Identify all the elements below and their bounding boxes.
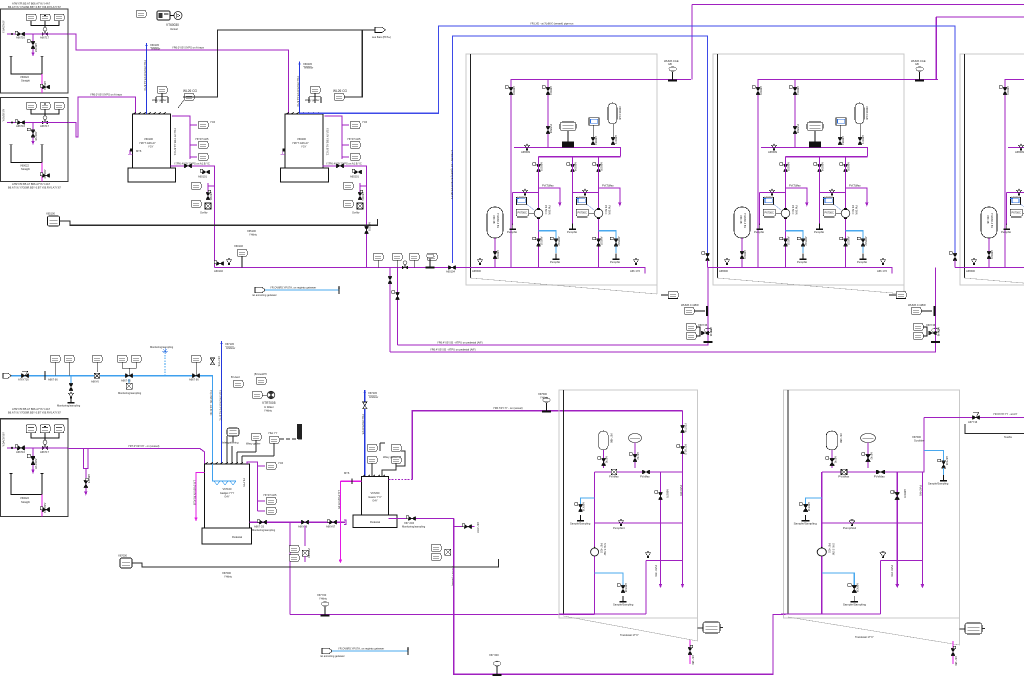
- V67200 overhead feed from transfer line: [389, 478, 413, 480]
- svg-text:B6.A7Y.6.Y7G06R.B5Y 6.B7 Y06.R: B6.A7Y.6.Y7G06R.B5Y 6.B7 Y06.RY6.A7Y.67: [8, 5, 61, 9]
- recycle line outer: [390, 341, 936, 352]
- svg-text:ret annwring getwwer: ret annwring getwwer: [320, 654, 345, 658]
- svg-text:Wavy gather: Wavy gather: [246, 441, 261, 445]
- svg-text:MY6: MY6: [344, 471, 350, 475]
- svg-text:Ovrflw: Ovrflw: [352, 211, 359, 215]
- bottom module 1 feed drop: [677, 411, 688, 472]
- svg-text:B6.A7Y.6.Y7G06R.B5Y 6.B7 Y06.R: B6.A7Y.6.Y7G06R.B5Y 6.B7 Y06.RY6.A7Y.67: [8, 411, 61, 415]
- flare arrow: [375, 27, 386, 32]
- flanged tee on waste bottom run: [493, 661, 502, 676]
- svg-text:Monitoring/sampling: Monitoring/sampling: [57, 404, 81, 408]
- bottom module 2 internals: [781, 431, 924, 614]
- svg-text:B6.A7Y.6.Y7G06R.B5Y 6.B7 Y06.R: B6.A7Y.6.Y7G06R.B5Y 6.B7 Y06.RY6.A7Y.67: [8, 185, 61, 189]
- svg-text:WL26 CG: WL26 CG: [183, 89, 198, 93]
- svg-text:B.Used: B.Used: [231, 375, 240, 379]
- svg-text:Y6Y07.G05: Y6Y07.G05: [195, 137, 209, 141]
- svg-text:Inlet gathering: Inlet gathering: [222, 441, 239, 445]
- svg-text:X67 600: X67 600: [489, 653, 499, 657]
- svg-text:Wavy gathering: Wavy gathering: [383, 455, 401, 459]
- svg-text:V60100: V60100: [144, 137, 154, 141]
- process module 1: [466, 54, 691, 294]
- svg-text:Ovrflw: Ovrflw: [200, 211, 207, 215]
- V60100 drain branch: [191, 183, 214, 215]
- svg-text:A7MY7R.B5.A7 B06.A7Y6.Y.4A7: A7MY7R.B5.A7 B06.A7Y6.Y.4A7: [12, 407, 51, 411]
- outlet branch small: [431, 522, 480, 586]
- process module 3: [960, 54, 1024, 294]
- svg-text:V60200: V60200: [297, 137, 307, 141]
- scrubber vessel V67100: [202, 462, 252, 544]
- svg-text:YR6.4Y/3Y.05 - ATPU on pedesta: YR6.4Y/3Y.05 - ATPU on pedestal (A/F): [437, 341, 483, 345]
- vessel V60100 side nozzle: [128, 150, 132, 154]
- V67200 pink feed line: [337, 471, 362, 563]
- svg-text:YMY7.G06.AY: YMY7.G06.AY: [139, 141, 156, 145]
- black test bracket top right: [965, 424, 1024, 434]
- svg-text:YT67Y6: YT67Y6: [684, 423, 688, 433]
- svg-text:Wavy gather: Wavy gather: [305, 98, 320, 102]
- svg-text:A60111: A60111: [209, 192, 213, 201]
- svg-text:YHdrty: YHdrty: [319, 597, 328, 601]
- svg-text:G4Y: G4Y: [372, 499, 377, 503]
- svg-text:X67245: X67245: [368, 391, 378, 395]
- scrubber vessel V67200: [353, 475, 397, 528]
- svg-text:YR6.4Y/3Y.05 - ATPU on pedesta: YR6.4Y/3Y.05 - ATPU on pedestal (A/F): [430, 348, 476, 352]
- long blue supply line 1: [300, 26, 956, 253]
- caustic unit box 3: [1, 419, 69, 517]
- svg-text:Pedestal: Pedestal: [370, 520, 381, 524]
- svg-text:Monitoring/sampling: Monitoring/sampling: [118, 391, 142, 395]
- bottom module 2 waste valve: [951, 641, 958, 666]
- pipe from box2 to V60100: [68, 97, 135, 137]
- svg-text:A60211: A60211: [361, 192, 365, 201]
- svg-text:Y.1R.0Y Y.B5.A1.B.YC1: Y.1R.0Y Y.B5.A1.B.YC1: [173, 128, 177, 156]
- recycle riser module2 with instrument taps: [661, 268, 713, 342]
- V60200 bottom outlet: [323, 166, 367, 268]
- waste transfer drop and bottom run: [454, 519, 786, 675]
- svg-text:see flare (PFS+): see flare (PFS+): [372, 35, 391, 39]
- svg-text:Y.7R6.4Y/3Y.0YPS on A1.B.YC: Y.7R6.4Y/3Y.0YPS on A1.B.YC: [174, 161, 210, 165]
- X60146 utility connection: [227, 244, 247, 268]
- svg-text:L.YR.LYE - 1.6 7(x66Y) B.YR.0Y: L.YR.LYE - 1.6 7(x66Y) B.YR.0Y.P5 AB.Y1: [450, 150, 454, 200]
- svg-text:Monitoring/sampling: Monitoring/sampling: [402, 525, 426, 529]
- svg-text:A667 66: A667 66: [189, 378, 199, 382]
- svg-text:Y6Y07.G05: Y6Y07.G05: [263, 493, 277, 497]
- svg-text:YR6.7/3Y.7Y - on (vessel): YR6.7/3Y.7Y - on (vessel): [493, 406, 523, 410]
- svg-text:A60203: A60203: [368, 222, 372, 232]
- svg-text:YHdrty: YHdrty: [264, 408, 273, 412]
- svg-text:Monitoring/sampling: Monitoring/sampling: [252, 528, 276, 532]
- V60200 drain branch: [343, 183, 367, 215]
- blue dosing spur bottom: [320, 647, 409, 658]
- VT60030 instrument group: [136, 11, 182, 31]
- svg-text:WHMX.C.GBW: WHMX.C.GBW: [908, 303, 926, 307]
- svg-text:X60146: X60146: [234, 244, 244, 248]
- svg-text:X67145: X67145: [225, 342, 235, 346]
- svg-text:X60Y46: X60Y46: [926, 323, 936, 327]
- svg-text:Translwait 17YY: Translwait 17YY: [620, 633, 639, 637]
- VTR7005 instrument cluster: [231, 372, 276, 412]
- svg-text:Monitoring/sampling: Monitoring/sampling: [150, 345, 174, 349]
- inhibitor line X60245: [299, 62, 301, 114]
- V67100 left recirculation line: [196, 473, 205, 519]
- svg-text:X67Y00: X67Y00: [317, 593, 327, 597]
- riser from transfer header to recycle bracket: [390, 268, 398, 353]
- caustic unit box 1: [1, 9, 69, 93]
- drain spur below outlet: [289, 522, 311, 562]
- svg-text:Y.1R.0Y/3Y.0Y.P5: Y.1R.0Y/3Y.0Y.P5: [361, 414, 365, 435]
- V60100 bottom outlet: [170, 166, 214, 268]
- svg-text:Y.1R.0Y/3Y.0Y.P5 A1.B.YC: Y.1R.0Y/3Y.0Y.P5 A1.B.YC: [143, 60, 147, 91]
- svg-text:Venturi: Venturi: [170, 27, 178, 31]
- recycle flange 2: [931, 328, 940, 343]
- V67100 top instrument manifold: [222, 424, 302, 464]
- top magenta supply to module 2: [922, 17, 1024, 80]
- svg-text:Y6.YY5: Y6.YY5: [242, 478, 246, 487]
- svg-text:Y6Y07.G05: Y6Y07.G05: [347, 137, 361, 141]
- svg-text:MY6: MY6: [136, 149, 142, 153]
- recycle line inner: [398, 341, 709, 345]
- module 3 bottom header extension: [955, 267, 960, 269]
- inhibitor line X67245: [361, 390, 378, 477]
- svg-text:V67200: V67200: [371, 491, 381, 495]
- bottom module 1 right side box: [698, 622, 724, 633]
- svg-text:X67 186: X67 186: [954, 656, 958, 666]
- svg-text:X60245: X60245: [303, 62, 313, 66]
- svg-text:L.R.0Y/3Y.0Y.P5: L.R.0Y/3Y.0Y.P5: [337, 490, 341, 509]
- transfer run to module 1: [290, 614, 595, 616]
- svg-text:A67Y26: A67Y26: [945, 456, 949, 466]
- feed instrument boxes above V60200: [310, 87, 320, 94]
- svg-text:YC6: YC6: [210, 120, 216, 124]
- V60200 right instrument taps: [325, 116, 368, 160]
- svg-text:A60102: A60102: [214, 269, 224, 273]
- box3 outlet pipe to V67100: [68, 449, 205, 465]
- svg-text:Gadget YYY: Gadget YYY: [220, 491, 235, 495]
- svg-text:YMY7.G06.AY: YMY7.G06.AY: [292, 141, 309, 145]
- black process line X67000: [118, 554, 499, 579]
- svg-text:A60Y46: A60Y46: [709, 327, 713, 337]
- svg-text:Wavy gather: Wavy gather: [152, 98, 167, 102]
- transfer header instrument cluster: [373, 253, 456, 273]
- svg-text:ret annwring getwwer: ret annwring getwwer: [252, 293, 277, 297]
- svg-text:X60Y46: X60Y46: [698, 323, 708, 327]
- feed instrument boxes above V60100: [157, 87, 167, 94]
- svg-text:A60Y46: A60Y46: [937, 327, 941, 337]
- flanged tee X67Y00 on transfer run: [321, 601, 330, 616]
- loop seal branch on box3 outlet: [84, 449, 89, 493]
- svg-text:A7MY7R.B5.A7 B06.A7Y6.Y.4A7: A7MY7R.B5.A7 B06.A7Y6.Y.4A7: [12, 2, 51, 6]
- flare branch to V60200 instruments: [344, 30, 362, 97]
- svg-text:YGY: YGY: [301, 145, 307, 149]
- X67500 flanged tee on transfer line: [542, 398, 551, 413]
- V67200 top instrument boxes: [367, 443, 405, 477]
- svg-text:YGY: YGY: [148, 145, 154, 149]
- svg-text:Y6el YY: Y6el YY: [268, 431, 278, 435]
- spray header inside: [213, 464, 237, 481]
- svg-text:C67 YY6: C67 YY6: [217, 356, 221, 367]
- svg-text:YHdrty: YHdrty: [540, 396, 549, 400]
- svg-text:Inhibitor: Inhibitor: [304, 66, 313, 70]
- svg-text:A667 66: A667 66: [121, 378, 131, 382]
- svg-text:(B.Used/Th: (B.Used/Th: [254, 372, 268, 376]
- svg-text:Sample/Sampling: Sample/Sampling: [928, 482, 949, 486]
- bottom module 1 internals: [559, 431, 684, 614]
- svg-text:YR.OV6R5.YP.07A, on regietry g: YR.OV6R5.YP.07A, on regietry getwwer: [270, 286, 316, 290]
- recycle riser to transfer line: [289, 522, 291, 614]
- svg-text:A66Y66: A66Y66: [298, 525, 308, 529]
- svg-text:YR.LYE - at 7(x66Y) (vessel) p: YR.LYE - at 7(x66Y) (vessel) pipe-run: [530, 22, 574, 26]
- svg-text:YR6.0Y/3Y.0YPS on A trays: YR6.0Y/3Y.0YPS on A trays: [90, 92, 123, 96]
- recycle riser module3 with instrument taps: [889, 268, 941, 342]
- svg-text:X67000: X67000: [118, 554, 128, 558]
- svg-text:X67500: X67500: [538, 392, 548, 396]
- svg-text:YC6: YC6: [362, 120, 368, 124]
- pipe from box1 to V60200: [68, 34, 288, 114]
- svg-text:A66Y67: A66Y67: [326, 525, 336, 529]
- svg-text:Translwait 17YY: Translwait 17YY: [855, 635, 874, 639]
- top magenta supply to module 1: [692, 5, 1024, 80]
- V67100 right instrument taps: [242, 461, 284, 514]
- bottom module 2 right side box: [960, 623, 986, 634]
- hanging drain on dosing line: [70, 376, 72, 385]
- svg-text:X60145: X60145: [150, 43, 160, 47]
- svg-text:X67000: X67000: [222, 571, 232, 575]
- bottom module 2 feed from right: [912, 412, 1024, 472]
- svg-text:Y.7R6.4Y/3Y.0YPS on A1.B.YC: Y.7R6.4Y/3Y.0YPS on A1.B.YC: [326, 161, 362, 165]
- inhibitor line X60145: [146, 43, 148, 114]
- recycle flange 1: [704, 328, 713, 343]
- svg-text:WL26 CG: WL26 CG: [333, 89, 348, 93]
- svg-text:A7MY7R.B5.A7 B06.A7Y6.Y.4A7: A7MY7R.B5.A7 B06.A7Y6.Y.4A7: [12, 182, 51, 186]
- svg-text:Y.1R.0Y/3Y.0Y.P5 A1.B.YC: Y.1R.0Y/3Y.0Y.P5 A1.B.YC: [218, 390, 222, 421]
- V67200 bottom outlet: [389, 516, 454, 529]
- vessel V60200 side nozzle: [281, 150, 285, 154]
- svg-text:X65100: X65100: [247, 229, 257, 233]
- svg-text:Y.1R.0Y Y.B5.A1.B.YC1: Y.1R.0Y Y.B5.A1.B.YC1: [326, 128, 330, 156]
- svg-text:Pedestal: Pedestal: [232, 535, 243, 539]
- inhibitor line X67145: [209, 341, 235, 464]
- svg-text:Y.1R.0Y/3Y.0Y.P5 A1.B.YC: Y.1R.0Y/3Y.0Y.P5 A1.B.YC: [296, 76, 300, 107]
- svg-text:Scrubber: Scrubber: [914, 439, 925, 443]
- bottom module 2 frame: [784, 390, 960, 645]
- svg-text:VTR7005: VTR7005: [262, 401, 276, 405]
- svg-text:In Water: In Water: [264, 405, 274, 409]
- module 2 bottom header extension: [708, 267, 714, 269]
- svg-text:X67 186: X67 186: [691, 655, 695, 665]
- svg-text:L.R.0Y/3Y.0Y.P5 A1.B: L.R.0Y/3Y.0Y.P5 A1.B: [192, 480, 196, 505]
- svg-text:Inhibitor: Inhibitor: [151, 47, 160, 51]
- svg-text:A667 66: A667 66: [48, 378, 58, 382]
- svg-text:A60201: A60201: [350, 175, 360, 179]
- svg-text:P07 80 S: P07 80 S: [684, 444, 688, 455]
- blue dosing spur mid: [252, 286, 340, 297]
- drum vessel V60100: [128, 112, 176, 181]
- svg-text:Inhibitor: Inhibitor: [369, 395, 378, 399]
- caustic dosing blue line bottom-left: [3, 345, 213, 464]
- svg-text:YR6.0Y/3Y.0YPS on A trays: YR6.0Y/3Y.0YPS on A trays: [172, 45, 205, 49]
- svg-text:Y.0,7/3Y.09 - A1.B.7/C: Y.0,7/3Y.09 - A1.B.7/C: [209, 390, 213, 416]
- svg-text:WHMX.C.GBW: WHMX.C.GBW: [681, 303, 699, 307]
- svg-text:YHdrty: YHdrty: [224, 575, 233, 579]
- black process line X65100: [46, 212, 378, 237]
- process module 2: [713, 54, 938, 294]
- bottom module 1 waste valve: [688, 640, 695, 665]
- svg-text:JY6Y/4Y: JY6Y/4Y: [307, 548, 311, 558]
- long blue supply line 2: [452, 36, 707, 263]
- bottom module 1 frame: [559, 390, 698, 641]
- svg-text:G4Y: G4Y: [224, 495, 229, 499]
- svg-text:YHdrty: YHdrty: [249, 233, 258, 237]
- drum vessel V60200: [281, 112, 329, 181]
- svg-text:Gauze YYY: Gauze YYY: [368, 495, 382, 499]
- svg-text:YC6: YC6: [278, 461, 284, 465]
- svg-text:YR.6Y/3Y.YY - at A/Y: YR.6Y/3Y.YY - at A/Y: [993, 412, 1018, 416]
- svg-text:YR7.0Y/3Y.0Y - on (vessel): YR7.0Y/3Y.0Y - on (vessel): [128, 444, 159, 448]
- module 1 bottom header extension: [214, 267, 466, 269]
- flare header black: [183, 30, 376, 97]
- valve on V60200 outlet riser: [364, 226, 368, 233]
- svg-text:Inhibitor: Inhibitor: [226, 346, 235, 350]
- svg-text:YR.OV6R5.YP.07A, on regietry g: YR.OV6R5.YP.07A, on regietry getwwer: [338, 647, 384, 651]
- svg-text:A60104: A60104: [446, 270, 456, 274]
- svg-text:A667 C6: A667 C6: [254, 525, 265, 529]
- svg-text:X67600: X67600: [912, 435, 922, 439]
- bottom module 2 right blue drain: [924, 451, 949, 486]
- V60100 right instrument taps: [172, 116, 216, 160]
- svg-text:A66Y6: A66Y6: [91, 379, 99, 383]
- svg-text:A667Y6: A667Y6: [87, 474, 91, 484]
- svg-text:A67Y16: A67Y16: [968, 420, 978, 424]
- caustic unit box 2: [1, 98, 69, 182]
- svg-text:A60101: A60101: [198, 175, 208, 179]
- svg-text:Test/lw: Test/lw: [1004, 435, 1012, 439]
- svg-text:VT60030: VT60030: [166, 23, 179, 27]
- V67100 bottom outlet: [249, 520, 346, 533]
- svg-text:A76Y716: A76Y716: [18, 378, 29, 382]
- svg-text:V67100: V67100: [223, 487, 233, 491]
- inter-module blue riser valves: [702, 252, 710, 261]
- valve at left end of transfer header: [214, 261, 223, 266]
- svg-text:X67 2C6: X67 2C6: [404, 521, 415, 525]
- svg-text:X67 2797: X67 2797: [476, 522, 480, 534]
- svg-text:X65100: X65100: [46, 212, 56, 216]
